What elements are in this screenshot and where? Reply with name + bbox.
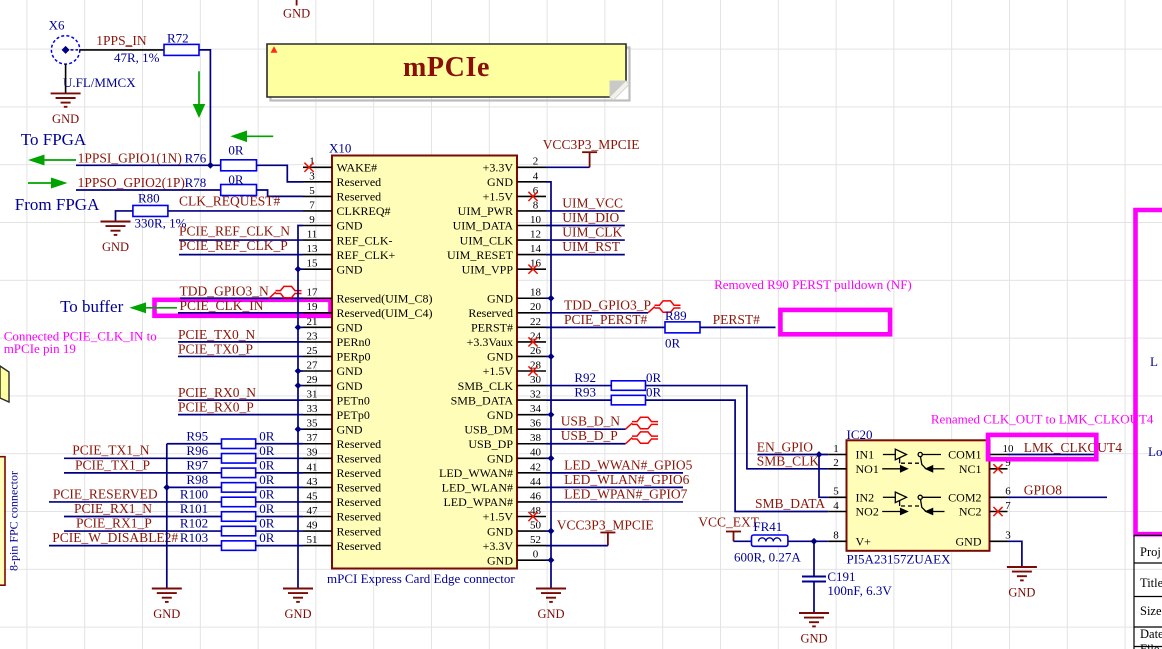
svg-text:LED_WWAN#_GPIO5: LED_WWAN#_GPIO5 bbox=[564, 457, 692, 472]
wire UIM_RST bbox=[546, 254, 625, 256]
svg-text:LED_WLAN#: LED_WLAN# bbox=[442, 481, 513, 495]
resistor R101 bbox=[222, 512, 256, 522]
svg-text:+3.3Vaux: +3.3Vaux bbox=[467, 335, 513, 349]
wire C191 top bbox=[813, 541, 815, 576]
diff pair marker TDD_GPIO3_P bbox=[648, 301, 681, 313]
svg-text:39: 39 bbox=[307, 447, 319, 459]
junction right bus pin0 bbox=[548, 557, 555, 564]
wire CLK_REQUEST# to pin7 bbox=[168, 210, 303, 212]
svg-text:REF_CLK+: REF_CLK+ bbox=[337, 248, 396, 262]
svg-text:30: 30 bbox=[530, 374, 542, 386]
svg-text:22: 22 bbox=[530, 316, 541, 328]
svg-text:51: 51 bbox=[307, 534, 318, 546]
svg-text:USB_D_N: USB_D_N bbox=[561, 414, 621, 429]
svg-text:R76: R76 bbox=[185, 150, 207, 165]
svg-text:COM1: COM1 bbox=[948, 448, 981, 462]
svg-text:USB_D_P: USB_D_P bbox=[561, 428, 618, 443]
svg-text:SMB_CLK: SMB_CLK bbox=[757, 454, 820, 469]
wire PCIE_RX0_P to pin33 bbox=[178, 414, 303, 416]
capacitor C191 bbox=[802, 577, 826, 582]
wire R89 to removed R90 bbox=[700, 326, 776, 328]
resistor R100 bbox=[222, 497, 256, 507]
analog switch IC20 bbox=[847, 440, 990, 551]
green arrow left PCIE_CLK_IN bbox=[129, 302, 177, 313]
svg-text:+1.5V: +1.5V bbox=[483, 190, 514, 204]
ground C191 GND bbox=[799, 613, 829, 626]
IC20 switch symbol 1 bbox=[882, 449, 944, 472]
svg-text:TDD_GPIO3_N: TDD_GPIO3_N bbox=[180, 283, 269, 298]
svg-text:GND: GND bbox=[487, 452, 513, 466]
wire PCIE_RX1_N bbox=[64, 516, 222, 518]
svg-text:PERp0: PERp0 bbox=[337, 350, 371, 364]
svg-text:Reserved: Reserved bbox=[468, 306, 513, 320]
svg-text:Removed R90 PERST pulldown (NF: Removed R90 PERST pulldown (NF) bbox=[714, 277, 912, 292]
wire FR41 to pin8 bbox=[788, 540, 828, 542]
svg-text:GND: GND bbox=[337, 262, 363, 276]
no connect pin48 bbox=[528, 512, 537, 521]
IC20 switch symbol 2 bbox=[882, 492, 944, 514]
svg-text:IN1: IN1 bbox=[856, 448, 875, 462]
svg-text:R102: R102 bbox=[180, 516, 208, 531]
svg-text:GND: GND bbox=[487, 408, 513, 422]
svg-text:44: 44 bbox=[530, 476, 542, 488]
svg-text:+1.5V: +1.5V bbox=[483, 364, 514, 378]
svg-text:UIM_RST: UIM_RST bbox=[562, 239, 621, 254]
wire R103 right bbox=[256, 545, 303, 547]
svg-text:Reserved: Reserved bbox=[337, 466, 382, 480]
svg-text:PCIE_RX1_P: PCIE_RX1_P bbox=[76, 515, 152, 530]
svg-text:8: 8 bbox=[533, 199, 539, 211]
svg-text:36: 36 bbox=[530, 418, 542, 430]
svg-text:GND: GND bbox=[52, 112, 79, 126]
wire X6 to ground bbox=[65, 64, 67, 93]
svg-text:33: 33 bbox=[307, 403, 319, 415]
svg-text:7: 7 bbox=[1005, 500, 1011, 512]
svg-text:GND: GND bbox=[283, 7, 310, 21]
svg-text:17: 17 bbox=[307, 287, 319, 299]
diff pair marker USB_D_N bbox=[626, 417, 659, 429]
wire left GND bus bbox=[298, 226, 303, 589]
svg-text:PCIE_CLK_IN: PCIE_CLK_IN bbox=[180, 298, 264, 313]
junction bank R98 bbox=[163, 484, 170, 491]
junction left bus pin29 bbox=[295, 382, 302, 389]
svg-text:GND: GND bbox=[487, 291, 513, 305]
junction right bus pin50 bbox=[548, 528, 555, 535]
svg-text:SMB_DATA: SMB_DATA bbox=[451, 393, 514, 407]
wire COM2 GPIO8 bbox=[1008, 496, 1108, 498]
svg-text:PI5A23157ZUAEX: PI5A23157ZUAEX bbox=[847, 552, 952, 567]
svg-text:PCIE_REF_CLK_N: PCIE_REF_CLK_N bbox=[179, 223, 290, 238]
junction C191 tap bbox=[811, 538, 818, 545]
svg-text:UIM_CLK: UIM_CLK bbox=[460, 233, 514, 247]
wire UIM_VCC bbox=[546, 210, 625, 212]
svg-text:Proj: Proj bbox=[1140, 545, 1161, 559]
connector X10 bbox=[332, 156, 517, 569]
svg-text:32: 32 bbox=[530, 389, 541, 401]
svg-text:FR41: FR41 bbox=[753, 519, 782, 534]
wire PCIE_TX1_P bbox=[64, 472, 222, 474]
note corner left edge bbox=[0, 366, 9, 402]
wire PCIE_CLK_IN to pin19 bbox=[178, 312, 303, 314]
svg-text:PCIE_RX1_N: PCIE_RX1_N bbox=[74, 501, 152, 516]
svg-text:NO1: NO1 bbox=[856, 462, 879, 476]
svg-text:GND: GND bbox=[337, 219, 363, 233]
ferrite bead FR41 bbox=[752, 535, 788, 546]
X10 left pins bbox=[303, 156, 432, 553]
ground right bus GND bbox=[536, 589, 566, 602]
wire PCIE_TX0_P to pin25 bbox=[178, 355, 303, 357]
svg-text:GND: GND bbox=[284, 607, 311, 621]
wire R100 right bbox=[256, 501, 303, 503]
svg-text:CLK_REQUEST#: CLK_REQUEST# bbox=[179, 194, 281, 209]
svg-text:GND: GND bbox=[487, 175, 513, 189]
svg-text:Reserved: Reserved bbox=[337, 495, 382, 509]
wire PCIE_RX1_P bbox=[64, 530, 222, 532]
svg-text:GND: GND bbox=[337, 321, 363, 335]
ground bank GND bbox=[152, 589, 182, 602]
wire PCIE_RESERVED bbox=[49, 501, 222, 503]
svg-text:1PPS_IN: 1PPS_IN bbox=[96, 33, 147, 48]
svg-text:R103: R103 bbox=[180, 530, 208, 545]
svg-text:PCIE_W_DISABLE2#: PCIE_W_DISABLE2# bbox=[52, 530, 178, 545]
svg-text:PETn0: PETn0 bbox=[337, 393, 370, 407]
wire LED_WLAN#_GPIO6 bbox=[546, 486, 683, 488]
svg-text:2: 2 bbox=[833, 457, 839, 469]
wire pin30 to R92 bbox=[546, 385, 611, 387]
svg-text:Reserved: Reserved bbox=[337, 452, 382, 466]
svg-text:21: 21 bbox=[307, 316, 318, 328]
wire R95 right bbox=[256, 443, 303, 445]
wire LED_WPAN#_GPIO7 bbox=[546, 501, 683, 503]
svg-text:C191: C191 bbox=[827, 569, 855, 584]
svg-text:8: 8 bbox=[833, 530, 839, 542]
wire R76 to pin3 bbox=[257, 165, 304, 182]
junction right bus pin40 bbox=[548, 455, 555, 462]
junction left bus pin15 bbox=[295, 266, 302, 273]
svg-text:NC1: NC1 bbox=[959, 462, 982, 476]
wire R97 right bbox=[256, 472, 303, 474]
svg-text:27: 27 bbox=[307, 359, 319, 371]
IC20 left pins bbox=[828, 443, 879, 549]
resistor R92 bbox=[611, 381, 645, 391]
wire 1PPSO to R78 bbox=[76, 189, 221, 191]
svg-text:PCIE_TX1_P: PCIE_TX1_P bbox=[75, 457, 150, 472]
svg-text:R101: R101 bbox=[180, 501, 208, 516]
wire USB_D_P pin38 bbox=[546, 443, 626, 445]
svg-text:CLKREQ#: CLKREQ# bbox=[337, 204, 391, 218]
svg-text:UIM_PWR: UIM_PWR bbox=[458, 204, 513, 218]
svg-text:REF_CLK-: REF_CLK- bbox=[337, 233, 393, 247]
highlight box LMK_CLKOUT4 bbox=[988, 435, 1096, 459]
svg-text:7: 7 bbox=[309, 199, 315, 211]
resistor R97 bbox=[222, 468, 256, 478]
ground GND top bbox=[296, 0, 298, 6]
title block bbox=[1134, 535, 1162, 649]
svg-text:Reserved(UIM_C4): Reserved(UIM_C4) bbox=[337, 306, 433, 320]
green arrow left mid bbox=[230, 131, 273, 143]
svg-text:+3.3V: +3.3V bbox=[483, 161, 514, 175]
wire pin2 to VCC3P3_MPCIE bbox=[546, 166, 590, 168]
svg-text:PCIE_RX0_N: PCIE_RX0_N bbox=[178, 385, 256, 400]
svg-text:Reserved: Reserved bbox=[337, 437, 382, 451]
svg-text:R97: R97 bbox=[186, 457, 208, 472]
svg-text:R100: R100 bbox=[180, 487, 208, 502]
green arrow left 1PPSI bbox=[28, 155, 76, 166]
svg-text:NC2: NC2 bbox=[959, 505, 982, 519]
svg-text:37: 37 bbox=[307, 432, 319, 444]
svg-text:3: 3 bbox=[309, 170, 315, 182]
svg-text:mPCIe pin 19: mPCIe pin 19 bbox=[4, 341, 76, 356]
svg-text:12: 12 bbox=[530, 228, 541, 240]
svg-text:To FPGA: To FPGA bbox=[21, 130, 87, 149]
note mPCIe title bbox=[267, 44, 630, 101]
svg-text:15: 15 bbox=[307, 258, 319, 270]
svg-text:35: 35 bbox=[307, 418, 319, 430]
svg-text:600R, 0.27A: 600R, 0.27A bbox=[734, 549, 801, 564]
wire USB_D_N pin36 bbox=[546, 428, 626, 430]
wire pin1 to pin5 bbox=[819, 455, 828, 498]
svg-text:0R: 0R bbox=[259, 472, 275, 487]
svg-text:L: L bbox=[1150, 354, 1158, 369]
svg-text:38: 38 bbox=[530, 432, 542, 444]
svg-text:EN_GPIO: EN_GPIO bbox=[757, 440, 813, 455]
ground IC20 GND bbox=[1007, 567, 1037, 580]
svg-text:0R: 0R bbox=[259, 443, 275, 458]
svg-text:PCIE_REF_CLK_P: PCIE_REF_CLK_P bbox=[179, 238, 288, 253]
svg-text:Reserved: Reserved bbox=[337, 481, 382, 495]
svg-text:PERST#: PERST# bbox=[471, 321, 513, 335]
svg-text:Lo: Lo bbox=[1148, 444, 1162, 459]
svg-text:42: 42 bbox=[530, 461, 541, 473]
svg-text:5: 5 bbox=[309, 185, 315, 197]
resistor R89 bbox=[665, 322, 700, 333]
wire IC20 pin3 to ground bbox=[1008, 541, 1022, 567]
svg-text:0R: 0R bbox=[259, 428, 275, 443]
wire EN_GPIO bbox=[757, 454, 828, 456]
svg-text:GND: GND bbox=[337, 364, 363, 378]
svg-text:PCIE_TX0_P: PCIE_TX0_P bbox=[178, 341, 253, 356]
svg-text:Reserved: Reserved bbox=[337, 539, 382, 553]
svg-text:0R: 0R bbox=[259, 516, 275, 531]
svg-text:GND: GND bbox=[102, 240, 129, 254]
svg-text:0R: 0R bbox=[646, 370, 662, 385]
svg-text:U.FL/MMCX: U.FL/MMCX bbox=[63, 75, 136, 90]
svg-text:PERn0: PERn0 bbox=[337, 335, 371, 349]
svg-text:11: 11 bbox=[307, 228, 318, 240]
svg-text:Reserved: Reserved bbox=[337, 524, 382, 538]
svg-text:Size: Size bbox=[1140, 604, 1162, 618]
svg-text:8-pin FPC connector: 8-pin FPC connector bbox=[7, 471, 21, 571]
svg-text:R93: R93 bbox=[574, 385, 596, 400]
wire PCIE_TX1_N bbox=[64, 457, 222, 459]
svg-text:1PPSI_GPIO1(1N): 1PPSI_GPIO1(1N) bbox=[78, 150, 182, 165]
wire R95 to GND bus bbox=[167, 443, 222, 445]
svg-text:18: 18 bbox=[530, 287, 542, 299]
wire LED_WWAN#_GPIO5 bbox=[546, 472, 683, 474]
svg-text:50: 50 bbox=[530, 519, 542, 531]
junction right bus pin26 bbox=[548, 353, 555, 360]
svg-text:R89: R89 bbox=[665, 308, 687, 323]
svg-text:UIM_RESET: UIM_RESET bbox=[447, 248, 514, 262]
wire 1PPSI to R76 bbox=[76, 164, 221, 166]
resistor R76 bbox=[221, 160, 257, 171]
svg-text:R95: R95 bbox=[186, 428, 208, 443]
junction left bus pin35 bbox=[295, 426, 302, 433]
junction left bus pin27 bbox=[295, 368, 302, 375]
svg-text:To buffer: To buffer bbox=[60, 297, 124, 316]
svg-text:X10: X10 bbox=[329, 141, 351, 156]
svg-text:1PPSO_GPIO2(1P): 1PPSO_GPIO2(1P) bbox=[78, 175, 185, 190]
svg-text:SMB_CLK: SMB_CLK bbox=[458, 379, 514, 393]
wire PCIE_TX0_N to pin23 bbox=[178, 341, 303, 343]
svg-text:9: 9 bbox=[309, 214, 315, 226]
svg-text:100nF, 6.3V: 100nF, 6.3V bbox=[827, 583, 892, 598]
svg-text:V+: V+ bbox=[856, 535, 872, 549]
svg-text:NO2: NO2 bbox=[856, 505, 879, 519]
svg-text:PERST#: PERST# bbox=[713, 312, 761, 327]
svg-text:6: 6 bbox=[1005, 486, 1011, 498]
svg-text:Reserved: Reserved bbox=[337, 190, 382, 204]
svg-text:+3.3V: +3.3V bbox=[483, 539, 514, 553]
green arrow down bbox=[193, 71, 206, 118]
svg-text:3: 3 bbox=[1005, 530, 1011, 542]
connector X6 bbox=[51, 36, 79, 64]
highlight box removed R90 bbox=[780, 310, 890, 334]
ground R80 GND bbox=[101, 222, 131, 235]
no connect pin6 bbox=[528, 192, 537, 201]
svg-text:46: 46 bbox=[530, 490, 542, 502]
svg-text:R92: R92 bbox=[574, 370, 596, 385]
svg-text:PCIE_TX1_N: PCIE_TX1_N bbox=[72, 443, 150, 458]
wire PCIE_REF_CLK_P to pin13 bbox=[179, 254, 303, 256]
wire R78 to pin5 bbox=[257, 190, 304, 196]
svg-text:4: 4 bbox=[533, 170, 539, 182]
wire pin52 to VCC3P3_MPCIE bbox=[546, 545, 608, 547]
resistor R103 bbox=[222, 541, 256, 551]
svg-text:R96: R96 bbox=[186, 443, 208, 458]
ground X6 GND bbox=[51, 93, 81, 106]
svg-text:GND: GND bbox=[337, 379, 363, 393]
diff pair marker USB_D_P bbox=[626, 432, 659, 444]
svg-text:10: 10 bbox=[1003, 443, 1015, 455]
green arrow right 1PPSO bbox=[28, 178, 68, 189]
wire PCIE_W_DISABLE2# bbox=[49, 545, 222, 547]
svg-text:Reserved: Reserved bbox=[337, 510, 382, 524]
svg-text:0R: 0R bbox=[228, 172, 244, 187]
svg-text:2: 2 bbox=[533, 156, 539, 168]
wire UIM_DIO bbox=[546, 225, 625, 227]
svg-text:0R: 0R bbox=[228, 143, 244, 158]
wire R102 right bbox=[256, 530, 303, 532]
svg-text:TDD_GPIO3_P: TDD_GPIO3_P bbox=[564, 297, 651, 312]
svg-text:41: 41 bbox=[307, 461, 318, 473]
svg-text:52: 52 bbox=[530, 534, 541, 546]
wire C191 bottom bbox=[813, 582, 815, 614]
svg-text:19: 19 bbox=[307, 301, 319, 313]
svg-text:0: 0 bbox=[533, 549, 539, 561]
svg-text:34: 34 bbox=[530, 403, 542, 415]
svg-text:26: 26 bbox=[530, 345, 542, 357]
wire PCIE_RX0_N to pin31 bbox=[178, 399, 303, 401]
svg-text:UIM_DATA: UIM_DATA bbox=[453, 219, 514, 233]
wire TDD_GPIO3_N to pin17 bbox=[180, 297, 303, 299]
connector FPC fragment bbox=[0, 457, 5, 586]
svg-text:UIM_DIO: UIM_DIO bbox=[562, 210, 619, 225]
wire VCC_EXT to FR41 bbox=[734, 540, 752, 542]
svg-text:File: File bbox=[1140, 642, 1160, 649]
svg-text:PCIE_RX0_P: PCIE_RX0_P bbox=[178, 400, 254, 415]
svg-text:GND: GND bbox=[537, 607, 564, 621]
svg-text:29: 29 bbox=[307, 374, 319, 386]
svg-text:GND: GND bbox=[487, 553, 513, 567]
svg-text:PCIE_TX0_N: PCIE_TX0_N bbox=[178, 327, 256, 342]
svg-text:From FPGA: From FPGA bbox=[15, 195, 100, 214]
svg-text:LED_WPAN#: LED_WPAN# bbox=[443, 495, 513, 509]
svg-text:45: 45 bbox=[307, 490, 319, 502]
ground left bus GND bbox=[283, 589, 313, 602]
svg-text:R72: R72 bbox=[167, 31, 189, 46]
no connect IC20 pin9 bbox=[993, 464, 1002, 473]
svg-text:UIM_VPP: UIM_VPP bbox=[462, 262, 514, 276]
svg-text:WAKE#: WAKE# bbox=[337, 161, 378, 175]
resistor R80 bbox=[133, 205, 168, 216]
resistor R98 bbox=[222, 483, 256, 493]
wire R93 to SMB_DATA bbox=[646, 400, 829, 511]
resistor R78 bbox=[221, 185, 257, 196]
no connect IC20 pin7 bbox=[993, 507, 1002, 516]
IC20 right pins bbox=[948, 443, 1014, 549]
highlight box right margin bbox=[1136, 210, 1162, 534]
svg-text:40: 40 bbox=[530, 447, 542, 459]
wire COM1 LMK_CLKOUT4 bbox=[1008, 454, 1097, 456]
svg-text:R98: R98 bbox=[186, 472, 208, 487]
X10 right pins bbox=[439, 156, 546, 568]
junction right bus pin34 bbox=[548, 411, 555, 418]
junction R72/R76 bbox=[207, 162, 214, 169]
svg-text:+1.5V: +1.5V bbox=[483, 510, 514, 524]
svg-text:UIM_CLK: UIM_CLK bbox=[562, 224, 622, 239]
svg-text:Reserved: Reserved bbox=[337, 175, 382, 189]
wire TDD_GPIO3_P pin20 bbox=[546, 312, 648, 314]
resistor R95 bbox=[222, 439, 256, 449]
svg-text:IN2: IN2 bbox=[856, 491, 875, 505]
junction right bus pin18 bbox=[548, 295, 555, 302]
svg-text:Renamed CLK_OUT to LMK_CLKOUT4: Renamed CLK_OUT to LMK_CLKOUT4 bbox=[931, 412, 1154, 427]
svg-text:GND: GND bbox=[956, 535, 982, 549]
resistor R102 bbox=[222, 526, 256, 536]
wire pin32 to R93 bbox=[546, 399, 611, 401]
wire R72 to R76 node bbox=[199, 50, 210, 165]
svg-text:USB_DM: USB_DM bbox=[464, 422, 513, 436]
svg-text:GND: GND bbox=[487, 524, 513, 538]
svg-text:10: 10 bbox=[530, 214, 542, 226]
svg-text:47: 47 bbox=[307, 505, 319, 517]
svg-text:49: 49 bbox=[307, 519, 319, 531]
svg-text:GPIO8: GPIO8 bbox=[1024, 483, 1063, 498]
svg-text:Title: Title bbox=[1140, 576, 1162, 590]
wire right GND bus bbox=[546, 182, 551, 589]
svg-text:COM2: COM2 bbox=[948, 491, 981, 505]
svg-text:14: 14 bbox=[530, 243, 542, 255]
wire R96 right bbox=[256, 457, 303, 459]
svg-text:LED_WWAN#: LED_WWAN# bbox=[439, 466, 513, 480]
svg-text:GND: GND bbox=[1008, 586, 1035, 600]
svg-text:VCC3P3_MPCIE: VCC3P3_MPCIE bbox=[543, 137, 640, 152]
svg-text:47R, 1%: 47R, 1% bbox=[114, 50, 160, 65]
wire R98 to GND bus bbox=[167, 486, 222, 488]
svg-text:R78: R78 bbox=[185, 175, 207, 190]
svg-text:LED_WLAN#_GPIO6: LED_WLAN#_GPIO6 bbox=[564, 472, 689, 487]
